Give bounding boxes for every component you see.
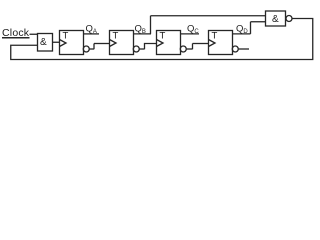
svg-text:T: T xyxy=(63,31,69,42)
svg-text:&: & xyxy=(40,37,47,48)
svg-text:Clock: Clock xyxy=(2,27,30,39)
svg-text:T: T xyxy=(113,31,119,42)
svg-text:T: T xyxy=(160,31,166,42)
svg-text:T: T xyxy=(212,31,218,42)
svg-text:&: & xyxy=(272,14,279,25)
